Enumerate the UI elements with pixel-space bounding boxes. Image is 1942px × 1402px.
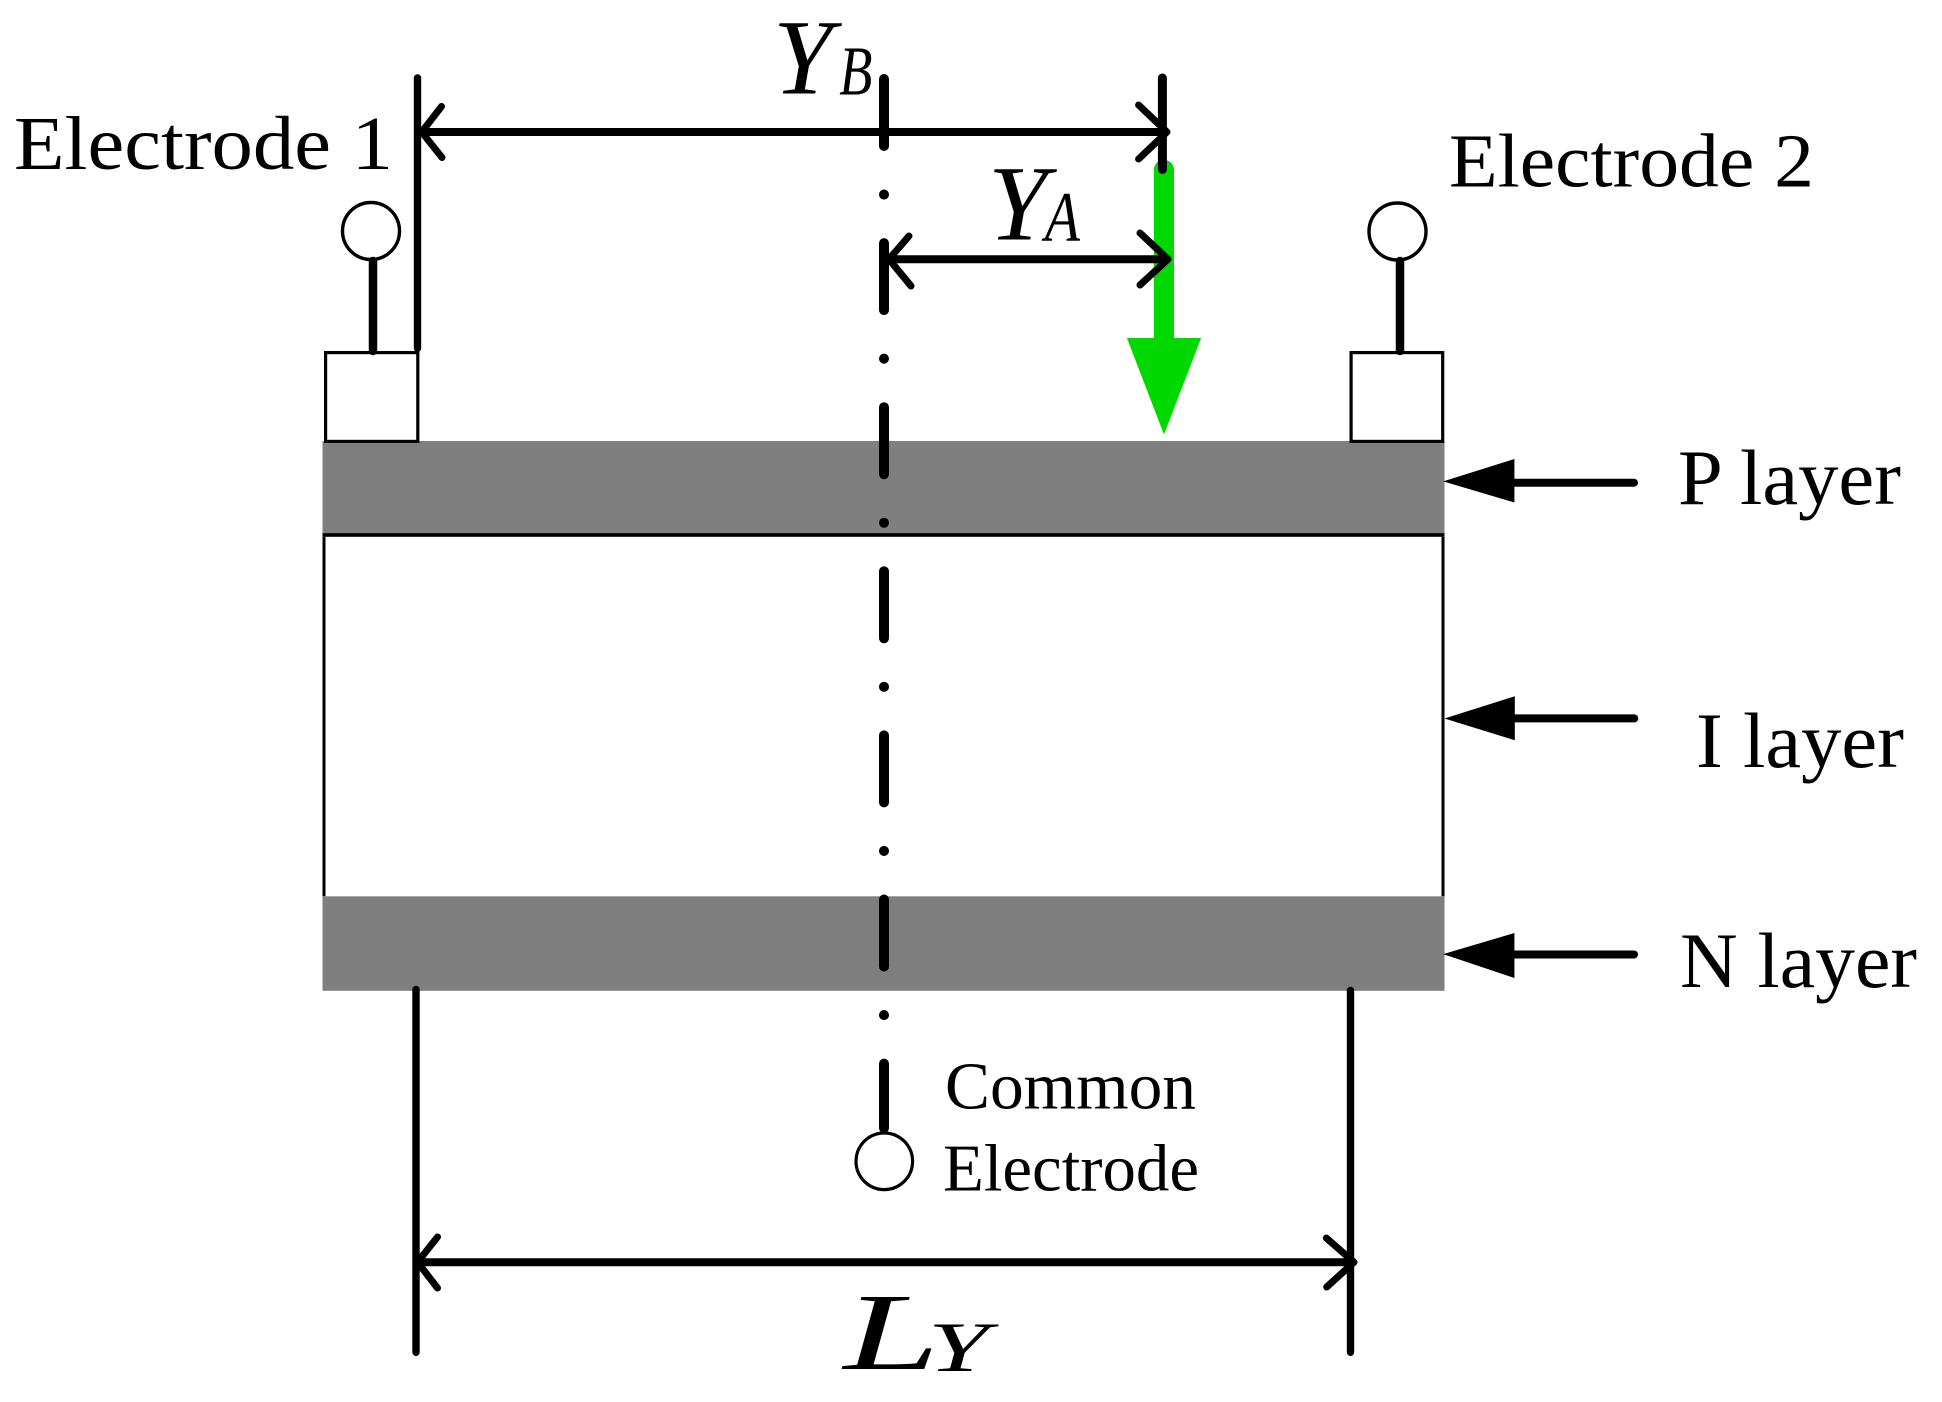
I layer right border wire bbox=[1442, 537, 1445, 897]
electrode 2 contact square bbox=[1351, 353, 1443, 442]
N layer (gray bar) bbox=[323, 896, 1445, 991]
YB left arrowhead bbox=[422, 107, 442, 158]
LY dimension line bbox=[418, 1258, 1353, 1266]
YA left arrowhead bbox=[889, 236, 911, 286]
light spot extension tick bbox=[1158, 78, 1167, 170]
svg-text:A: A bbox=[1041, 177, 1080, 256]
P layer pointer arrow shaft bbox=[1512, 479, 1634, 487]
P layer bottom boundary line bbox=[323, 533, 1445, 537]
center dash-dot axis line bbox=[879, 79, 889, 1128]
N layer pointer arrow head bbox=[1443, 933, 1514, 978]
svg-text:Electrode: Electrode bbox=[943, 1132, 1199, 1206]
P layer pointer arrow head bbox=[1443, 459, 1514, 503]
svg-text:N layer: N layer bbox=[1680, 917, 1917, 1004]
electrode 1 contact square bbox=[326, 353, 418, 442]
light beam green arrow shaft bbox=[1154, 170, 1174, 340]
electrode 1 lead wire bbox=[369, 261, 378, 351]
common electrode terminal circle bbox=[856, 1133, 913, 1190]
svg-text:Y: Y bbox=[773, 0, 843, 118]
svg-text:B: B bbox=[839, 32, 872, 110]
YB dimension line bbox=[422, 128, 1166, 136]
svg-text:Common: Common bbox=[945, 1050, 1196, 1124]
svg-text:P layer: P layer bbox=[1678, 434, 1901, 521]
electrode 1 terminal circle bbox=[343, 203, 400, 260]
svg-text:L: L bbox=[841, 1272, 939, 1394]
LY left extension tick bbox=[412, 990, 419, 1353]
LY right extension tick bbox=[1347, 991, 1354, 1353]
LY left arrowhead bbox=[418, 1237, 438, 1288]
LY right arrowhead bbox=[1326, 1238, 1354, 1287]
light beam green arrow head bbox=[1127, 338, 1201, 435]
N layer pointer arrow shaft bbox=[1512, 951, 1634, 959]
YA dimension line bbox=[889, 255, 1166, 263]
svg-text:Electrode 1: Electrode 1 bbox=[14, 102, 393, 186]
I layer pointer arrow shaft bbox=[1512, 714, 1634, 722]
svg-text:Electrode 2: Electrode 2 bbox=[1449, 120, 1814, 204]
I layer left border wire bbox=[323, 537, 326, 897]
electrode 2 lead wire bbox=[1396, 261, 1405, 351]
I layer pointer arrow head bbox=[1445, 696, 1515, 740]
YA right arrowhead bbox=[1140, 233, 1168, 285]
svg-text:I layer: I layer bbox=[1696, 697, 1904, 784]
YB right arrowhead bbox=[1139, 105, 1167, 159]
svg-text:Y: Y bbox=[928, 1308, 999, 1387]
P layer (gray bar) bbox=[323, 441, 1445, 534]
electrode 2 terminal circle bbox=[1369, 203, 1426, 260]
YB left extension tick bbox=[414, 78, 421, 348]
